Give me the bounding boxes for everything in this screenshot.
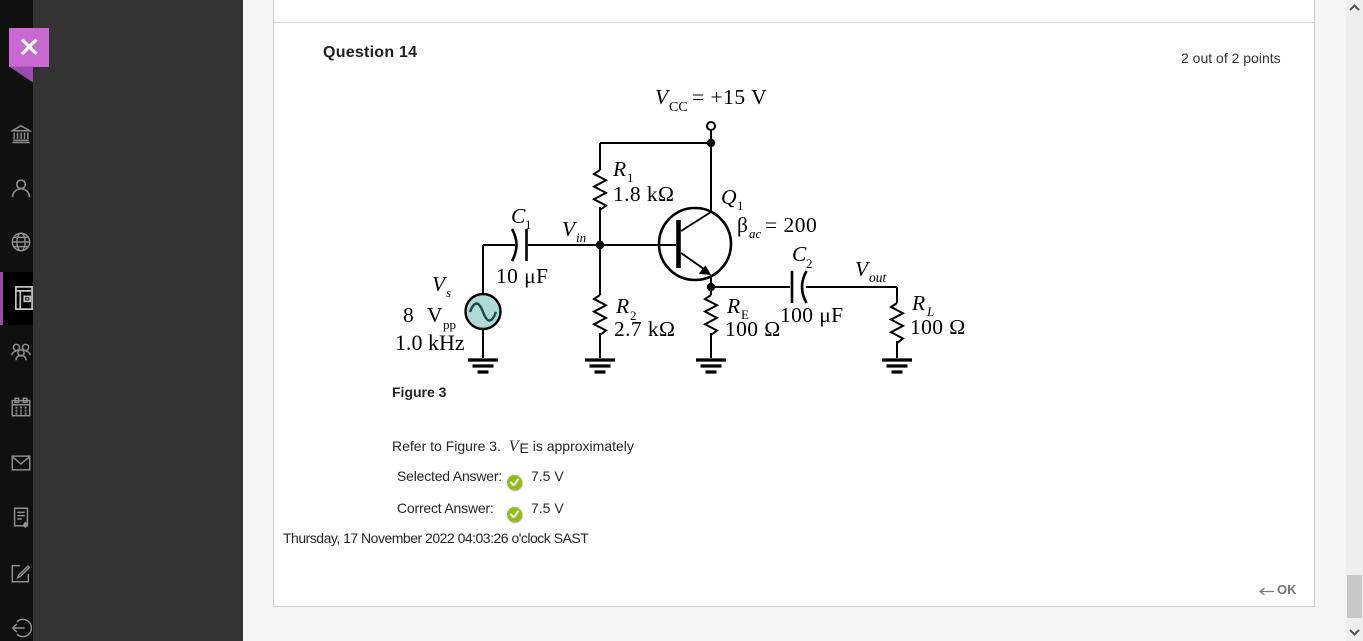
svg-text:ac: ac [749,226,762,241]
svg-text:1: 1 [525,217,532,232]
svg-text:out: out [869,270,888,285]
svg-text:R: R [911,291,925,315]
svg-text:2.7 kΩ: 2.7 kΩ [614,317,675,341]
svg-text:R: R [612,157,626,181]
svg-text:β: β [737,213,748,237]
svg-text:Q: Q [721,185,737,209]
svg-text:1.0 kHz: 1.0 kHz [395,330,465,355]
svg-text:100 μF: 100 μF [780,303,844,327]
svg-text:100 Ω: 100 Ω [725,317,781,341]
svg-text:in: in [576,230,586,245]
svg-text:1: 1 [737,198,744,213]
svg-text:= 200: = 200 [765,213,817,237]
svg-text:CC: CC [669,100,688,115]
svg-text:1.8 kΩ: 1.8 kΩ [613,182,674,206]
svg-text:C: C [792,242,807,266]
svg-text:8: 8 [403,303,414,327]
svg-text:s: s [446,285,451,300]
svg-text:V: V [427,303,443,327]
svg-text:2: 2 [806,256,813,271]
svg-text:R: R [726,294,740,318]
svg-text:= +15 V: = +15 V [692,85,767,109]
svg-text:100 Ω: 100 Ω [910,315,966,339]
svg-text:C: C [511,204,526,228]
svg-text:10 μF: 10 μF [496,264,548,288]
svg-text:R: R [615,294,629,318]
